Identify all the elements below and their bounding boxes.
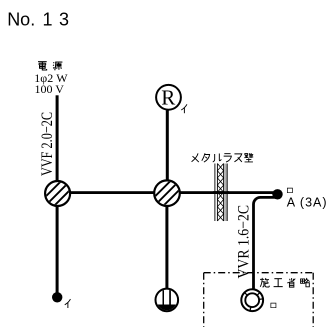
svg-text:No.: No. [7, 9, 35, 29]
svg-text:3: 3 [59, 9, 69, 29]
svg-text:A (3A): A (3A) [287, 195, 328, 209]
svg-text:VVF 2.0−2C: VVF 2.0−2C [39, 112, 56, 176]
svg-text:R: R [161, 86, 175, 110]
svg-text:100 V: 100 V [35, 82, 65, 96]
svg-text:1: 1 [43, 9, 53, 29]
svg-text:VVR 1.6−2C: VVR 1.6−2C [235, 205, 252, 279]
